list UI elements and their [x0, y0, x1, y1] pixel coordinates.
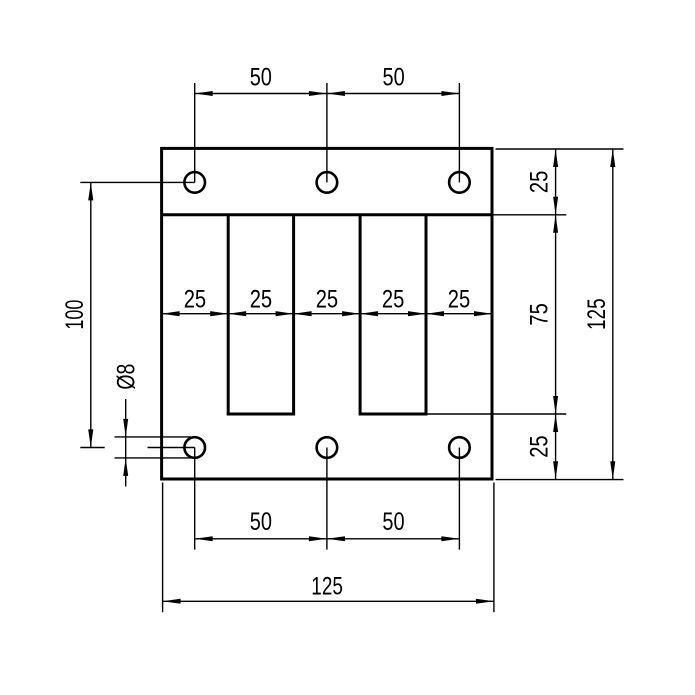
svg-text:25: 25 — [448, 285, 470, 313]
svg-text:25: 25 — [526, 171, 554, 193]
right extension line (plate top) — [496, 148, 624, 150]
top dimension extension lines — [195, 83, 460, 182]
bottom dimension line 125 — [163, 599, 494, 604]
right chain text 25 (top) — [526, 171, 554, 193]
svg-text:25: 25 — [184, 285, 206, 313]
bottom dimension text 50 (left) — [250, 508, 272, 536]
middle dimension text 25 #5 — [448, 285, 470, 313]
svg-text:50: 50 — [250, 64, 272, 92]
top dimension line 50+50 — [195, 91, 460, 96]
bottom 50 extension lines — [195, 448, 460, 550]
hole top-middle Ø8 — [317, 172, 338, 193]
svg-text:50: 50 — [250, 508, 272, 536]
svg-text:25: 25 — [382, 285, 404, 313]
svg-text:Ø8: Ø8 — [112, 364, 140, 390]
left 100 extension tick (bottom hole center) — [80, 447, 104, 449]
left dimension text 100 — [61, 300, 89, 330]
bottom dimension text 125 — [311, 573, 343, 601]
middle dimension text 25 #2 — [250, 285, 272, 313]
top dimension text 50 (right) — [383, 64, 405, 92]
strip separation line — [162, 213, 492, 216]
right chain text 25 (bottom) — [526, 435, 554, 457]
hole top-right Ø8 — [449, 172, 470, 193]
hole bottom-right Ø8 — [449, 437, 470, 458]
hole bottom-left Ø8 — [184, 437, 205, 458]
Ø8 dimension line with arrows — [123, 399, 128, 487]
hole top-left Ø8 — [184, 172, 205, 193]
svg-text:25: 25 — [250, 285, 272, 313]
right dimension line 125 — [610, 149, 615, 479]
right extension line (slot bottom) — [427, 413, 566, 415]
svg-text:125: 125 — [311, 573, 343, 601]
middle dimension text 25 #3 — [316, 285, 338, 313]
right extension line (plate bottom) — [496, 479, 624, 481]
svg-text:100: 100 — [61, 300, 89, 330]
right chain text 75 — [526, 303, 554, 325]
bottom 125 extension lines — [163, 483, 494, 613]
middle dimension text 25 #4 — [382, 285, 404, 313]
hole bottom-middle Ø8 — [317, 437, 338, 458]
svg-text:75: 75 — [526, 303, 554, 325]
right chain dimension line 25+75+25 — [553, 149, 558, 479]
Ø8 hole center line — [148, 447, 195, 449]
bottom dimension text 50 (right) — [382, 508, 404, 536]
plate outline 125x125 — [162, 148, 492, 479]
Ø8 lower tangent line — [115, 457, 192, 459]
svg-text:25: 25 — [526, 435, 554, 457]
Ø8 dimension text — [112, 364, 140, 390]
slot 1 — [227, 215, 295, 414]
svg-text:50: 50 — [382, 508, 404, 536]
slot 2 — [359, 215, 428, 414]
top dimension text 50 (left) — [250, 64, 272, 92]
svg-text:50: 50 — [383, 64, 405, 92]
bottom dimension line 50+50 — [195, 536, 460, 541]
right extension line (strip bottom) — [494, 214, 567, 216]
right dimension text 125 — [583, 298, 611, 330]
svg-text:125: 125 — [583, 298, 611, 330]
middle dimension line 25x5 — [162, 311, 492, 316]
left 100 extension line (top hole center) — [80, 181, 194, 183]
left dimension line 100 — [88, 182, 93, 447]
svg-text:25: 25 — [316, 285, 338, 313]
middle dimension text 25 #1 — [184, 285, 206, 313]
Ø8 upper tangent line — [115, 436, 192, 438]
